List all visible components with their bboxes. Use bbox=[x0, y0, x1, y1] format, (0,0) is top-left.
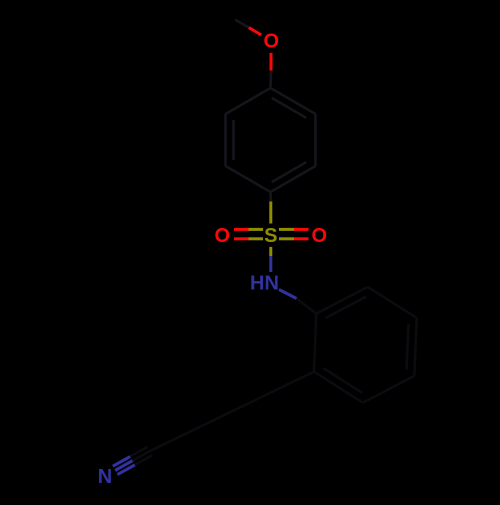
nitrile triple bond line 1 (nitrogen half, blue) bbox=[117, 465, 134, 475]
svg-text:O: O bbox=[215, 225, 231, 247]
bond N-C1 (carbon half, dark) bbox=[297, 299, 317, 314]
benzene ring 2 edge C2-C3 bbox=[368, 287, 417, 318]
S=O left double bond lower line (red half) bbox=[234, 237, 249, 240]
benzene ring 1 edge TL-BL bbox=[224, 114, 227, 166]
svg-text:N: N bbox=[98, 466, 112, 488]
svg-text:HN: HN bbox=[250, 272, 279, 294]
S=O left double bond upper line (red half) bbox=[234, 228, 249, 231]
benzene ring 2 edge C1-C2 bbox=[316, 287, 367, 314]
bond CH2-CH2 (chain, dark) bbox=[205, 398, 260, 425]
svg-text:O: O bbox=[312, 225, 328, 247]
nitrile triple bond line 2 (nitrogen half, blue) bbox=[115, 461, 132, 471]
benzene ring 1 edge TR-T bbox=[271, 88, 316, 114]
benzene ring 1 inner double bond (lower right) bbox=[272, 162, 307, 182]
benzene ring 1 edge T-TL bbox=[226, 88, 271, 114]
benzene ring 2 inner double bond (right) bbox=[407, 324, 409, 370]
nitrile triple bond line 2 (carbon half, dark) bbox=[133, 451, 151, 461]
bond CH3-O (carbon half, dark) bbox=[235, 20, 249, 28]
bond CH3-O (oxygen half, red) bbox=[249, 28, 261, 35]
svg-text:O: O bbox=[264, 31, 280, 53]
benzene ring 2 edge C3-C4 bbox=[414, 318, 416, 376]
nitrile triple bond line 3 (carbon half, dark) bbox=[130, 447, 148, 457]
bond C6-CH2 (chain, dark) bbox=[259, 372, 314, 398]
benzene ring 2 edge C4-C5 bbox=[363, 376, 414, 403]
nitrile triple bond line 3 (nitrogen half, blue) bbox=[113, 457, 130, 467]
benzene ring 1 inner double bond (upper right) bbox=[272, 98, 307, 118]
S=O left double bond upper line (olive half) bbox=[249, 228, 264, 231]
benzene ring 2 edge C6-C1 bbox=[314, 314, 316, 372]
bond ring-S (sulfur half, olive) bbox=[269, 202, 272, 224]
bond O-ring (oxygen half, red) bbox=[270, 53, 273, 71]
svg-text:S: S bbox=[264, 225, 277, 247]
bond CH2-C (chain to nitrile carbon, dark) bbox=[150, 425, 205, 451]
S=O right double bond lower line (olive half) bbox=[279, 237, 294, 240]
bond ring-S (carbon half, dark) bbox=[269, 192, 272, 202]
nitrile triple bond line 1 (carbon half, dark) bbox=[135, 455, 153, 465]
bond S-N (nitrogen half, blue) bbox=[269, 256, 272, 272]
benzene ring 1 edge BR-TR bbox=[314, 114, 317, 166]
S=O right double bond lower line (red half) bbox=[294, 237, 309, 240]
bond S-N (sulfur half, olive) bbox=[269, 247, 272, 256]
benzene ring 2 edge C5-C6 bbox=[314, 372, 363, 403]
S=O left double bond lower line (olive half) bbox=[249, 237, 264, 240]
S=O right double bond upper line (red half) bbox=[294, 228, 309, 231]
S=O right double bond upper line (olive half) bbox=[279, 228, 294, 231]
benzene ring 2 inner double bond (top) bbox=[325, 297, 366, 318]
bond N-C1 (nitrogen half, blue) bbox=[279, 290, 297, 299]
benzene ring 1 edge BL-B bbox=[226, 166, 271, 192]
benzene ring 1 inner double bond (left) bbox=[232, 120, 235, 160]
benzene ring 1 edge B-BR bbox=[271, 166, 316, 192]
benzene ring 2 inner double bond (bottom left) bbox=[323, 368, 362, 393]
bond O-ring (carbon half, dark) bbox=[269, 71, 272, 88]
